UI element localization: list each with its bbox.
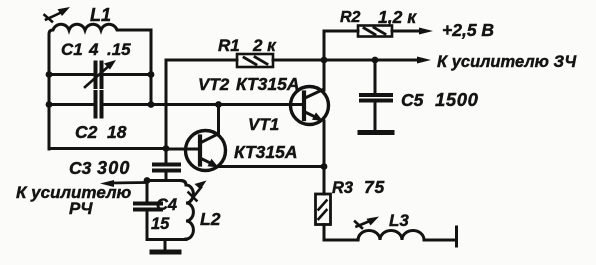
ground lower [152, 240, 179, 253]
inductor L2 [181, 181, 193, 240]
svg-text:R3: R3 [332, 179, 353, 197]
svg-text:C1: C1 [61, 40, 83, 59]
svg-text:L2: L2 [200, 209, 221, 229]
inductor L1 [49, 24, 151, 149]
node dot C4 junction [144, 177, 151, 184]
L3 tuning arrow [355, 217, 379, 229]
capacitor C3 [154, 165, 179, 181]
wire C3 bottom junction [147, 179, 181, 182]
L1 tuning arrow [45, 7, 71, 22]
svg-text:РЧ: РЧ [69, 199, 93, 218]
svg-text:VT1: VT1 [248, 115, 279, 134]
transistor VT2 [291, 87, 329, 125]
svg-text:C3: C3 [69, 158, 92, 178]
resistor R2 [324, 26, 419, 37]
capacitor C5 [361, 60, 391, 130]
wire VT2 collector up [323, 31, 326, 90]
C1 variable arrow [85, 60, 116, 87]
capacitor C4 [135, 181, 161, 240]
wire vertical feedback node [165, 60, 168, 164]
svg-text:К усилителю ЗЧ: К усилителю ЗЧ [437, 53, 576, 71]
svg-text:C4: C4 [156, 196, 177, 214]
arrow to AF amplifier [417, 57, 431, 64]
svg-text:75: 75 [364, 177, 385, 197]
wire VT2 emitter down [323, 121, 326, 167]
inductor L3 [358, 231, 456, 240]
svg-text:+2,5 В: +2,5 В [442, 20, 494, 40]
svg-text:1500: 1500 [435, 89, 479, 110]
resistor R3 [316, 167, 359, 241]
svg-text:L3: L3 [389, 211, 409, 230]
wire base rail to VT2 [151, 103, 302, 106]
transistor VT1 [166, 131, 226, 171]
node dot emitter junction [321, 163, 328, 170]
svg-text:18: 18 [107, 122, 127, 142]
svg-text:300: 300 [97, 158, 131, 178]
wire rail3 tank-left to base node [49, 147, 166, 150]
capacitor C1 [49, 63, 151, 88]
svg-text:4: 4 [88, 40, 99, 59]
svg-text:R2: R2 [340, 9, 361, 26]
svg-text:1,2 к: 1,2 к [378, 7, 417, 27]
svg-text:C2: C2 [75, 122, 98, 142]
svg-text:L1: L1 [90, 5, 111, 25]
wire L2/C4 bottom rail [147, 238, 186, 241]
svg-text:VT2: VT2 [198, 75, 230, 94]
svg-text:КТ315А: КТ315А [234, 142, 298, 162]
node dot R1/VT2 [321, 57, 328, 64]
node dot base junction [163, 145, 170, 152]
terminal tick [455, 227, 458, 246]
svg-text:R1: R1 [218, 36, 240, 55]
arrow to RF amplifier [100, 180, 147, 187]
node dot VT1 collector [215, 101, 222, 108]
svg-text:C5: C5 [401, 90, 424, 110]
resistor R1 [166, 54, 419, 67]
wire VT1 collector up [217, 105, 220, 135]
capacitor C2 [49, 92, 151, 117]
wire VT1 emitter to R3 node [217, 165, 324, 168]
arrow +2.5V [419, 28, 433, 35]
L2 tuning arrow [189, 181, 207, 201]
svg-text:2 к: 2 к [252, 36, 277, 55]
ground C5 [360, 130, 392, 135]
wire tank right vertical [150, 30, 153, 105]
node dots tank [46, 71, 155, 108]
node dot C5 top [372, 57, 379, 64]
svg-text:.15: .15 [107, 40, 131, 59]
svg-text:КТ315А: КТ315А [236, 74, 300, 94]
svg-text:15: 15 [151, 215, 170, 233]
